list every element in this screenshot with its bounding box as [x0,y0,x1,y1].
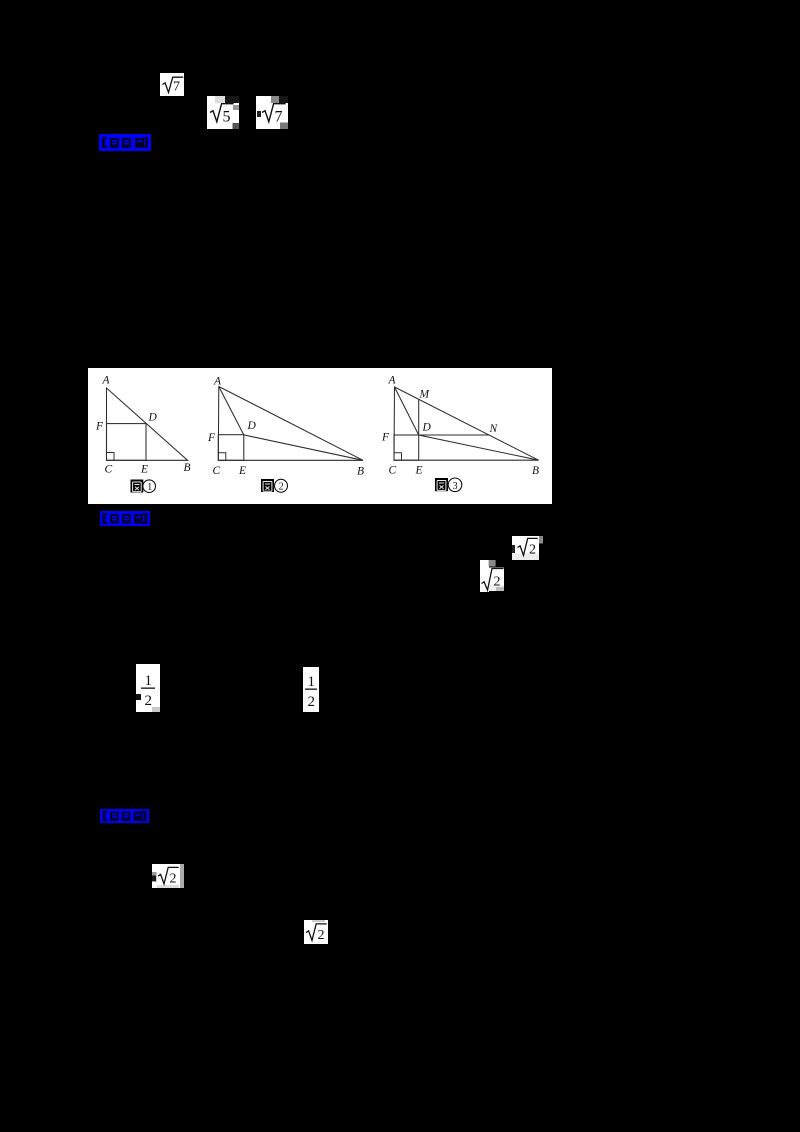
svg-text:E: E [140,464,148,476]
svg-text:2: 2 [170,872,177,887]
svg-text:F: F [95,421,104,433]
svg-text:3: 3 [453,481,458,492]
svg-text:D: D [247,420,257,432]
svg-text:5: 5 [223,109,231,126]
svg-text:1: 1 [308,674,316,690]
svg-text:1: 1 [145,673,153,689]
svg-text:C: C [213,465,221,477]
svg-text:2: 2 [494,575,501,590]
svg-text:N: N [489,423,499,435]
svg-text:7: 7 [275,109,283,126]
svg-text:1: 1 [147,482,152,493]
svg-text:A: A [102,374,111,386]
svg-text:2: 2 [279,482,284,493]
svg-text:D: D [148,412,158,424]
svg-text:C: C [389,465,397,477]
svg-text:D: D [422,422,432,434]
svg-text:F: F [207,432,216,444]
svg-text:M: M [419,389,431,401]
svg-text:A: A [388,375,397,387]
svg-text:2: 2 [308,694,316,710]
svg-text:2: 2 [529,543,536,558]
svg-text:A: A [213,376,222,388]
svg-text:E: E [415,465,423,477]
svg-text:7: 7 [173,80,180,95]
svg-text:2: 2 [145,693,153,709]
svg-text:F: F [381,432,390,444]
svg-text:B: B [184,462,191,474]
svg-text:2: 2 [318,928,325,943]
svg-text:B: B [532,465,539,477]
svg-text:C: C [105,464,113,476]
svg-text:E: E [238,465,246,477]
svg-text:B: B [357,466,364,478]
